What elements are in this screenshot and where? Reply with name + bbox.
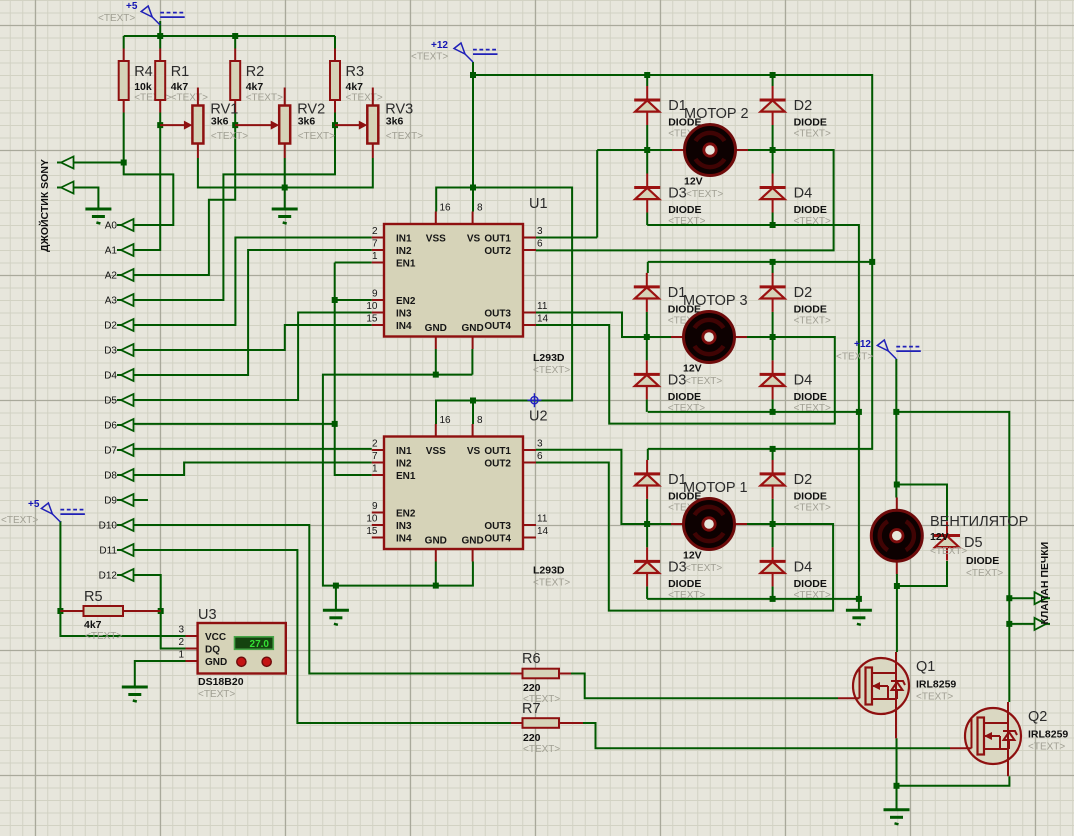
svg-text:<TEXT>: <TEXT> [98,13,135,24]
svg-text:VSS: VSS [426,234,446,245]
svg-text:EN1: EN1 [396,259,416,270]
svg-text:D3: D3 [668,559,687,575]
diode D3 [634,547,705,601]
svg-text:<TEXT>: <TEXT> [916,692,953,703]
svg-text:7: 7 [372,451,378,462]
ground diode rails [846,610,872,625]
terminal D12 [117,569,134,581]
svg-text:14: 14 [537,314,549,325]
svg-text:DIODE: DIODE [966,555,999,567]
node junction motor3 leads [644,334,776,340]
node junction supply rails [470,185,476,404]
svg-text:R1: R1 [171,64,190,80]
svg-text:A3: A3 [105,296,118,307]
power +12 top [411,40,498,63]
svg-text:L293D: L293D [533,352,565,364]
svg-text:VS: VS [467,446,481,457]
node junction R5 left [57,608,63,614]
wire net +12 right [896,359,1034,702]
wire net Q1 source [897,738,1010,810]
svg-text:2: 2 [372,226,378,237]
wire net RV2wiper-A2 [134,113,235,276]
svg-text:8: 8 [477,415,483,426]
svg-text:D2: D2 [104,321,117,332]
terminal A0 [117,219,134,231]
svg-text:EN2: EN2 [396,296,416,307]
svg-text:VSS: VSS [426,446,446,457]
svg-text:OUT4: OUT4 [484,534,511,545]
origin marker U2 [527,393,541,407]
svg-text:10k: 10k [134,81,152,93]
terminal D9 [117,494,134,506]
svg-text:11: 11 [537,514,548,525]
svg-text:<TEXT>: <TEXT> [685,376,722,387]
transistor Q2 IRL8259 [950,708,1021,764]
diode D1 [634,273,705,327]
svg-text:D3: D3 [668,372,687,388]
svg-text:DIODE: DIODE [668,204,701,216]
svg-text:<TEXT>: <TEXT> [794,216,831,227]
potentiometer RV3 [335,88,423,159]
svg-text:Q2: Q2 [1028,709,1047,725]
wire net RV3wiper-A3 [134,113,335,301]
svg-text:7: 7 [372,239,378,250]
wire net D7-U2IN1 [134,448,372,450]
diode D3 [634,174,705,228]
svg-text:12V: 12V [683,363,702,375]
svg-text:D2: D2 [794,472,813,488]
terminal A1 [117,244,134,256]
terminal D3 [117,344,134,356]
power +5 top [98,1,185,25]
wire net D10-R6 [134,525,511,674]
wire net RV1b-RV3b [198,158,373,188]
svg-text:220: 220 [523,682,541,694]
motor MOTOR3 [684,312,735,363]
svg-text:КЛАПАН ПЕЧКИ: КЛАПАН ПЕЧКИ [1039,542,1051,625]
node junction Q1 source [894,783,900,789]
svg-text:6: 6 [537,451,543,462]
terminal KLAPAN 2 [1035,618,1051,630]
node +5 rail junctions [157,33,238,39]
svg-text:DIODE: DIODE [794,578,827,590]
node junction RV3 wiper [332,122,338,128]
wire net RV1wiper-A1 [134,113,160,251]
Q2 drain-source stubs [1007,702,1009,776]
U2 labels [529,409,570,589]
svg-text:R2: R2 [246,64,265,80]
wire net D6-EN [134,263,372,476]
svg-text:EN1: EN1 [396,471,416,482]
terminal KLAPAN 1 [1035,592,1051,604]
motor FAN leads [896,498,898,575]
svg-text:6: 6 [537,239,543,250]
terminal D2 [117,319,134,331]
op-amp U1 L293D [366,203,548,350]
svg-text:<TEXT>: <TEXT> [794,129,831,140]
resistor R2 [230,49,283,113]
wire net D11-R7 [134,550,511,723]
svg-text:<TEXT>: <TEXT> [794,502,831,513]
svg-text:16: 16 [440,203,452,214]
svg-text:3: 3 [537,439,543,450]
svg-text:<TEXT>: <TEXT> [411,52,448,63]
svg-text:4k7: 4k7 [84,619,102,631]
svg-text:МОТОР 1: МОТОР 1 [683,480,748,496]
svg-text:12V: 12V [684,176,703,188]
svg-text:4k7: 4k7 [246,81,264,93]
terminal D4 [117,369,134,381]
wire net arrow2-gnd [74,188,98,210]
svg-text:<TEXT>: <TEXT> [85,631,122,642]
node junction fan top [894,482,900,488]
svg-text:A2: A2 [105,271,118,282]
diode D2 [760,86,831,140]
node junction motor1 leads [644,521,776,527]
svg-text:<TEXT>: <TEXT> [246,93,283,104]
wire net D2-IN1 [134,238,372,326]
svg-text:VS: VS [467,234,481,245]
node junction RV2 wiper [232,122,238,128]
node junction R5 right [158,608,164,614]
svg-text:OUT4: OUT4 [484,321,511,332]
svg-text:D7: D7 [104,446,117,457]
svg-text:<TEXT>: <TEXT> [523,744,560,755]
svg-text:DQ: DQ [205,645,220,656]
svg-text:<TEXT>: <TEXT> [1,515,38,526]
resistor R3 [330,49,383,113]
svg-text:D8: D8 [104,471,117,482]
svg-text:2: 2 [178,637,184,648]
svg-text:27.0: 27.0 [250,639,270,650]
svg-text:R4: R4 [134,64,153,80]
wire net motor1 row [536,450,833,611]
wire net gnd rail right [647,225,859,610]
svg-text:D2: D2 [794,285,813,301]
svg-text:D10: D10 [99,521,118,532]
svg-text:OUT1: OUT1 [484,446,511,457]
svg-text:U3: U3 [198,607,217,623]
svg-text:GND: GND [425,323,447,334]
svg-text:R3: R3 [346,64,365,80]
svg-text:D4: D4 [794,372,813,388]
svg-text:12V: 12V [683,550,702,562]
wire net D12-R5 [134,575,161,611]
terminal A3 [117,294,134,306]
diode D4 [760,174,831,228]
svg-text:GND: GND [461,323,483,334]
svg-text:<TEXT>: <TEXT> [533,578,570,589]
svg-text:U1: U1 [529,196,548,212]
svg-text:DIODE: DIODE [668,578,701,590]
power +5 left [1,499,85,526]
wire net R7-Q2gate [583,723,950,748]
terminal D8 [117,469,134,481]
svg-text:GND: GND [461,536,483,547]
svg-text:МОТОР 3: МОТОР 3 [683,293,748,309]
wire net fan bottom [897,561,947,652]
svg-text:D5: D5 [964,535,983,551]
svg-text:OUT3: OUT3 [484,309,511,320]
motor MOTOR1 leads [671,523,747,525]
svg-text:ВЕНТИЛЯТОР: ВЕНТИЛЯТОР [930,514,1028,530]
wire net D8-U2IN2 [134,463,372,476]
svg-text:<TEXT>: <TEXT> [668,590,705,601]
svg-text:3k6: 3k6 [386,116,404,128]
svg-text:VCC: VCC [205,632,226,643]
terminal arrow top1 [57,157,74,169]
op-amp U2 L293D [366,415,548,562]
wire net +5L-R5-VCC [60,521,185,636]
node junctions +12 rail [470,72,875,452]
svg-text:12V: 12V [930,531,949,543]
wire net D5-IN3 [134,313,372,401]
node junction RV2 bottom rail [282,185,288,191]
svg-text:A1: A1 [105,246,118,257]
svg-text:DIODE: DIODE [794,303,827,315]
svg-text:3k6: 3k6 [211,116,229,128]
svg-text:3k6: 3k6 [298,116,316,128]
diode D5 [934,522,960,561]
svg-text:<TEXT>: <TEXT> [533,365,570,376]
svg-text:IRL8259: IRL8259 [916,679,956,691]
svg-text:15: 15 [366,314,378,325]
diode D2 [760,273,831,327]
svg-text:D6: D6 [104,421,117,432]
diode D4 [760,360,831,414]
svg-text:16: 16 [440,415,452,426]
svg-text:+5: +5 [126,1,138,12]
svg-text:4k7: 4k7 [171,81,189,93]
ground U2 rail [323,610,349,625]
resistor R4 [119,49,172,113]
wire motor2 diode col greens [647,125,772,225]
svg-text:4k7: 4k7 [346,81,364,93]
node junctions +12 right [893,409,1012,627]
svg-text:DIODE: DIODE [668,391,701,403]
U1 labels [529,196,570,376]
svg-text:DS18B20: DS18B20 [198,676,244,688]
svg-text:<TEXT>: <TEXT> [685,563,722,574]
motor FAN [871,510,922,561]
motor MOTOR3 leads [671,336,747,338]
node junction R4-arrow [121,160,127,166]
svg-text:IRL8259: IRL8259 [1028,729,1068,741]
ground joystick [85,209,111,224]
svg-text:<TEXT>: <TEXT> [668,403,705,414]
transistor Q1 IRL8259 [838,658,909,714]
wire net D3-IN4 [134,325,372,350]
svg-text:D5: D5 [104,396,117,407]
terminal arrow top2 [57,182,74,194]
wire net D9 stub [134,499,148,501]
svg-text:3: 3 [537,226,543,237]
svg-text:<TEXT>: <TEXT> [346,93,383,104]
svg-text:DIODE: DIODE [794,117,827,129]
svg-text:Q1: Q1 [916,659,935,675]
ground U3 [122,687,148,702]
svg-text:<TEXT>: <TEXT> [386,131,423,142]
svg-text:GND: GND [425,536,447,547]
Q1 labels [916,659,956,703]
svg-text:<TEXT>: <TEXT> [966,568,1003,579]
svg-text:D2: D2 [794,98,813,114]
svg-text:D4: D4 [794,559,813,575]
svg-text:IN4: IN4 [396,534,412,545]
svg-text:D9: D9 [104,496,117,507]
wire net U1 gnd rail [323,349,473,610]
diode D4 [760,547,831,601]
motor MOTOR2 leads [672,149,748,151]
svg-text:10: 10 [366,514,378,525]
potentiometer RV2 [235,88,335,159]
svg-text:OUT1: OUT1 [484,234,511,245]
svg-text:8: 8 [477,203,483,214]
svg-text:D3: D3 [668,186,687,202]
motor MOTOR2 [685,125,736,176]
svg-text:1: 1 [372,464,378,475]
svg-text:OUT3: OUT3 [484,521,511,532]
svg-text:11: 11 [537,301,548,312]
svg-text:220: 220 [523,732,541,744]
svg-text:IN1: IN1 [396,446,412,457]
diode D1 [634,86,705,140]
svg-text:<TEXT>: <TEXT> [686,189,723,200]
Q1 drain-source stubs [895,652,897,738]
svg-text:<TEXT>: <TEXT> [211,131,248,142]
power +12 right [836,339,921,363]
node junction motor2 leads [644,147,775,153]
terminal D11 [117,544,134,556]
node junction EN net [332,297,338,427]
resistor R6 [511,651,572,705]
svg-text:D12: D12 [99,571,118,582]
ground Q1Q2 [884,810,910,825]
svg-text:14: 14 [537,526,549,537]
wire net +12 rail [473,75,872,460]
svg-text:<TEXT>: <TEXT> [794,590,831,601]
svg-text:IN1: IN1 [396,234,412,245]
terminal D7 [117,444,134,456]
svg-text:<TEXT>: <TEXT> [171,93,208,104]
svg-text:ДЖОЙСТИК SONY: ДЖОЙСТИК SONY [38,159,51,252]
svg-text:МОТОР 2: МОТОР 2 [684,106,749,122]
svg-text:OUT2: OUT2 [484,459,511,470]
svg-text:<TEXT>: <TEXT> [794,315,831,326]
wire net R4-A0 [74,113,173,226]
terminal D10 [117,519,134,531]
resistor R7 [511,701,583,755]
node junction RV1 wiper [157,122,163,128]
svg-text:IN3: IN3 [396,309,412,320]
resistor R1 [155,49,208,113]
wire net VSS-VS rails [436,62,572,424]
svg-text:15: 15 [366,526,378,537]
svg-text:OUT2: OUT2 [484,246,511,257]
node junctions gnd rails [333,372,439,589]
wire net RV2b-gnd [284,158,286,209]
svg-text:IN2: IN2 [396,246,412,257]
svg-text:<TEXT>: <TEXT> [836,352,873,363]
potentiometer RV1 [160,88,248,159]
svg-text:R6: R6 [522,651,541,667]
wire +5 top rail [124,21,335,49]
svg-text:<TEXT>: <TEXT> [668,216,705,227]
wire net D4-IN2 [134,250,372,375]
diode D1 [634,460,705,514]
svg-text:IN3: IN3 [396,521,412,532]
Q2 labels [1028,709,1068,753]
node junction motor2 bottom [770,222,776,228]
svg-text:3: 3 [178,625,184,636]
terminal A2 [117,269,134,281]
svg-text:10: 10 [366,301,378,312]
wire net motor3 row [536,313,835,424]
svg-text:+5: +5 [28,499,40,510]
svg-text:D3: D3 [104,346,117,357]
svg-text:DIODE: DIODE [794,204,827,216]
node junction motor1 bottom gnd [770,596,862,602]
svg-text:D4: D4 [794,186,813,202]
node junction fan bottom [894,583,900,589]
diode D3 [634,360,705,414]
wire motor1 diode col greens [647,499,773,599]
svg-text:<TEXT>: <TEXT> [930,546,967,557]
svg-text:1: 1 [372,251,378,262]
svg-text:<TEXT>: <TEXT> [298,131,335,142]
diode D2 [760,460,831,514]
sensor U3 DS18B20 [178,607,285,700]
svg-text:IN4: IN4 [396,321,412,332]
svg-text:R7: R7 [522,701,541,717]
resistor R5 [60,589,160,642]
wire net motor3 bottom rail [648,411,859,413]
svg-text:<TEXT>: <TEXT> [1028,742,1065,753]
svg-text:+12: +12 [431,40,448,51]
wire net U3gnd [135,661,186,687]
svg-text:+12: +12 [854,339,871,350]
node junction motor3 bottom [770,409,862,415]
svg-text:1: 1 [178,650,184,661]
svg-text:IN2: IN2 [396,459,412,470]
svg-text:U2: U2 [529,409,548,425]
ground RV2 [272,209,298,224]
terminal D5 [117,394,134,406]
svg-text:D11: D11 [99,546,117,557]
svg-text:EN2: EN2 [396,509,416,520]
svg-text:DIODE: DIODE [794,490,827,502]
svg-text:<TEXT>: <TEXT> [794,403,831,414]
motor MOTOR1 [684,499,735,550]
svg-text:<TEXT>: <TEXT> [198,689,235,700]
wire net R5-DQ [161,611,186,649]
wire net fan top [897,485,947,522]
svg-text:L293D: L293D [533,565,565,577]
svg-text:9: 9 [372,501,378,512]
svg-text:2: 2 [372,439,378,450]
wire net R6-Q1gate [571,674,838,699]
wire net motor1 bottom rail [647,598,859,600]
svg-text:D4: D4 [104,371,117,382]
svg-text:DIODE: DIODE [794,391,827,403]
svg-text:R5: R5 [84,589,103,605]
wire motor3 diode col greens [647,312,773,412]
svg-text:9: 9 [372,289,378,300]
svg-text:GND: GND [205,657,227,668]
wire net motor2 row [536,150,834,250]
terminal D6 [117,419,134,431]
svg-text:A0: A0 [105,221,118,232]
